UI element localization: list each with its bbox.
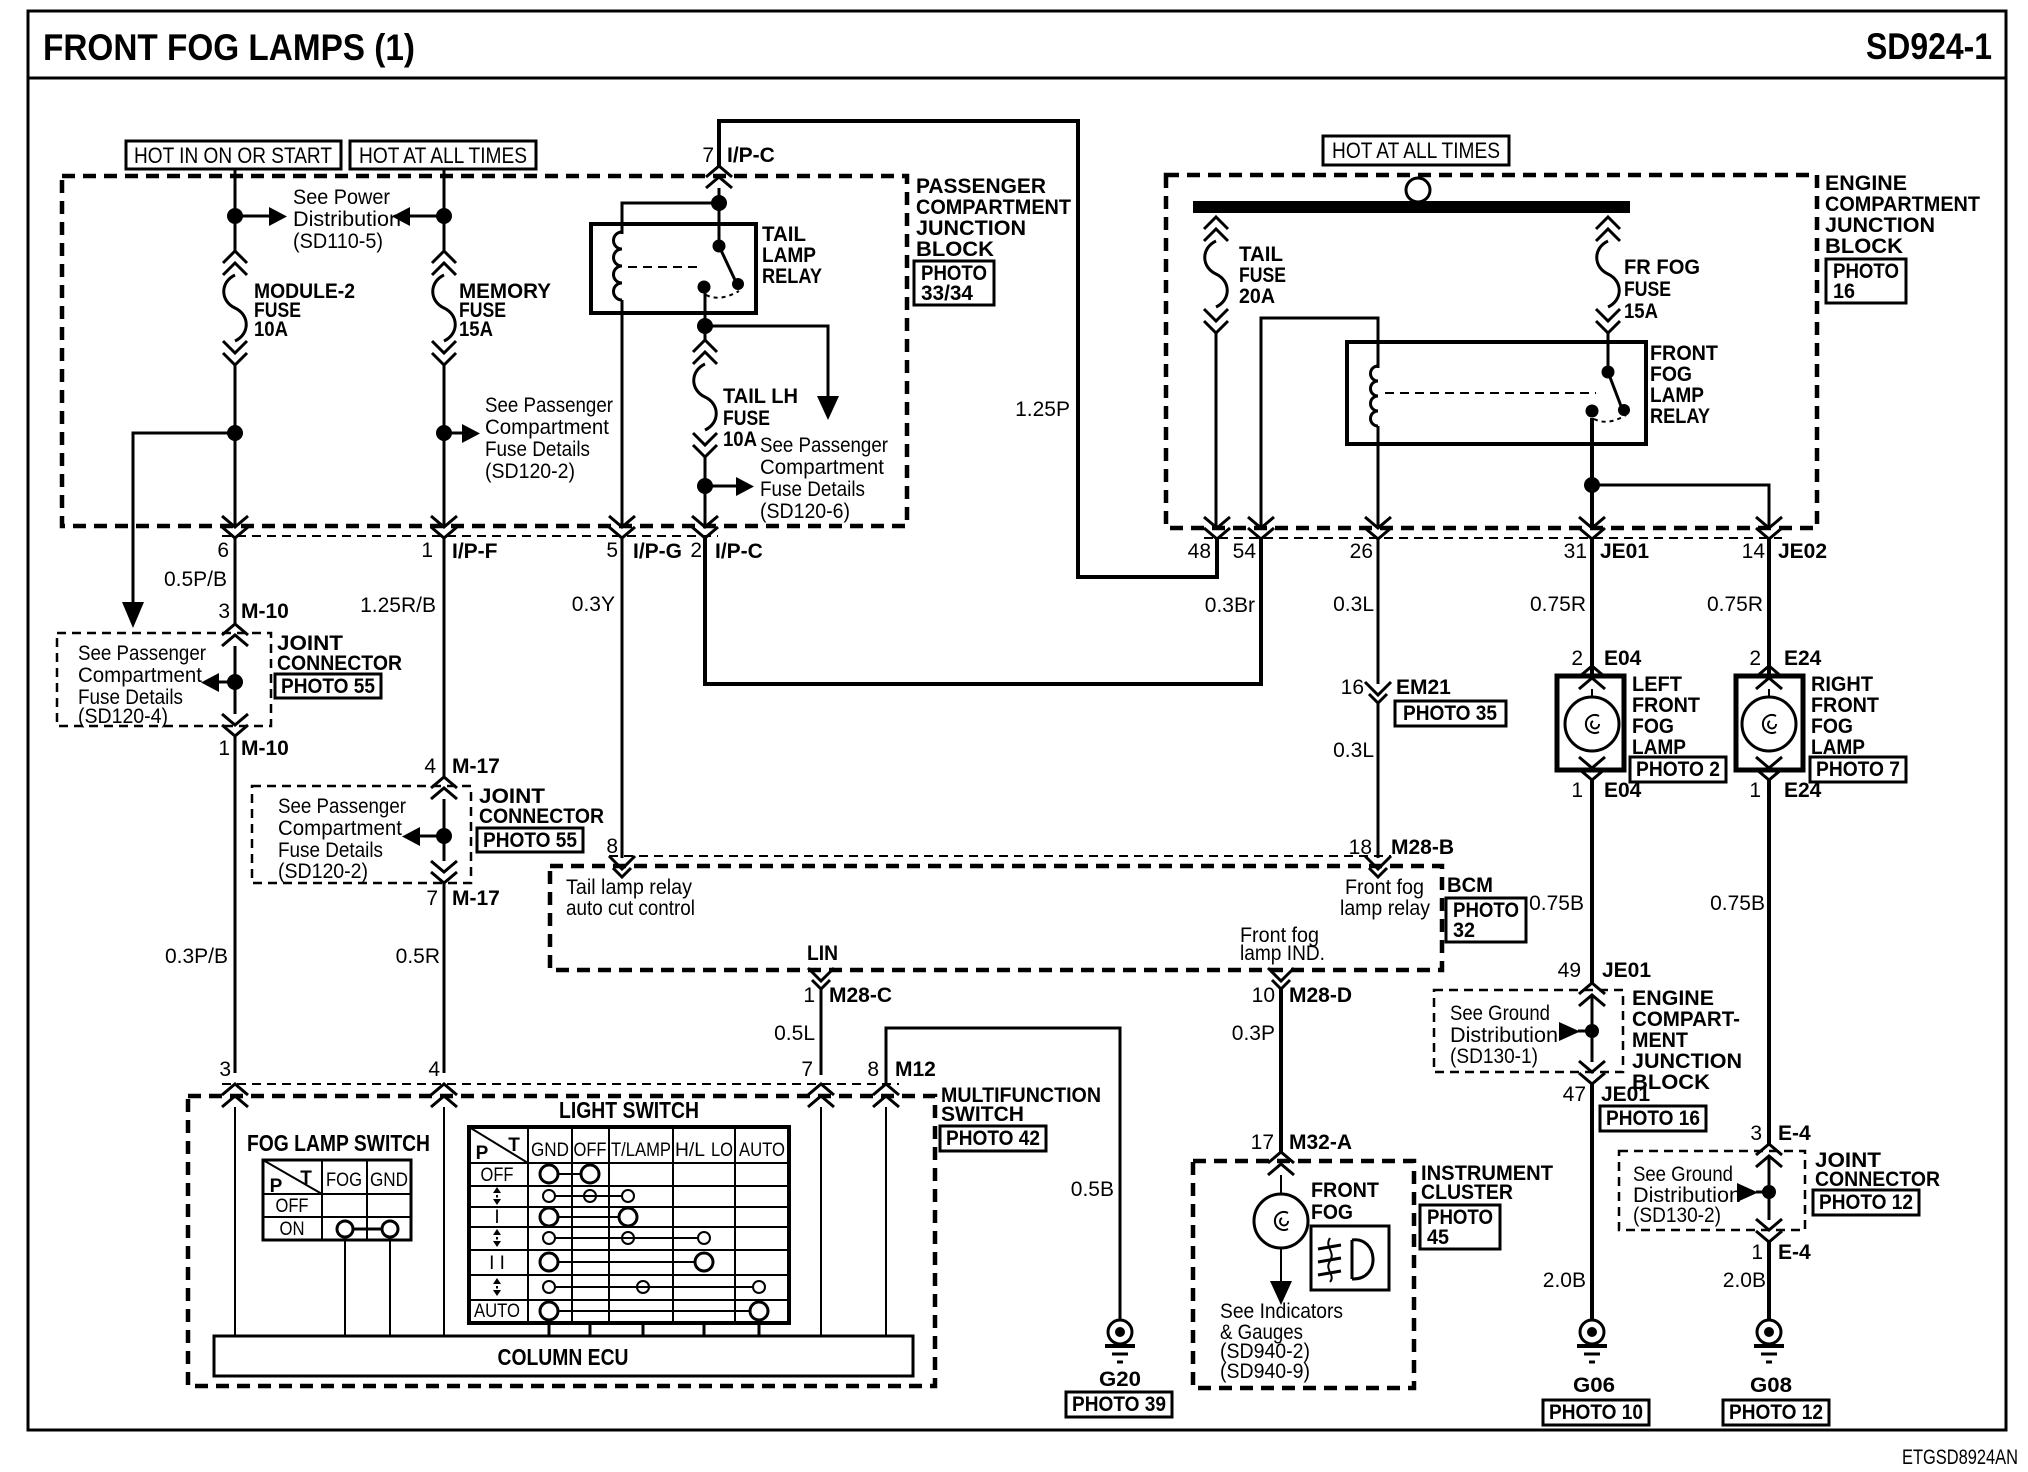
fog lamp switch table xyxy=(263,1160,411,1240)
svg-text:JE01: JE01 xyxy=(1600,540,1649,563)
svg-text:RELAY: RELAY xyxy=(1650,405,1710,428)
front fog lamp relay box xyxy=(1347,342,1646,444)
junction dot with arrow into SD120-4 box xyxy=(201,673,243,692)
svg-text:PHOTO 55: PHOTO 55 xyxy=(483,829,577,852)
connector 1 E04 xyxy=(1571,757,1641,802)
wire M-17 down to light switch xyxy=(443,883,446,1073)
note Tail lamp relay auto cut control xyxy=(566,876,695,920)
svg-text:Front fog: Front fog xyxy=(1345,876,1424,899)
svg-text:SWITCH: SWITCH xyxy=(941,1103,1024,1126)
wire label 0.75R (left) xyxy=(1530,593,1586,616)
arrow to see power distribution xyxy=(235,207,287,226)
wire label 0.5L xyxy=(774,1022,815,1045)
multifunction pin 3 connector xyxy=(219,1058,248,1107)
svg-text:(SD130-1): (SD130-1) xyxy=(1450,1045,1538,1068)
svg-text:lamp IND.: lamp IND. xyxy=(1240,942,1325,965)
light switch row updown3 contacts xyxy=(543,1281,765,1293)
svg-text:JE01: JE01 xyxy=(1602,959,1651,982)
svg-text:FRONT: FRONT xyxy=(1650,342,1718,365)
photo 10 box xyxy=(1543,1400,1649,1425)
column ECU box xyxy=(214,1336,913,1376)
see ground distribution SD130-1 dashed box xyxy=(1434,990,1623,1072)
photo 55 box (M-10) xyxy=(275,674,381,698)
svg-text:PHOTO 42: PHOTO 42 xyxy=(946,1127,1040,1150)
photo 39 box xyxy=(1066,1392,1172,1417)
junction dot below front fog relay xyxy=(1584,477,1600,493)
svg-text:FOG: FOG xyxy=(1811,715,1853,738)
svg-text:0.5L: 0.5L xyxy=(774,1022,815,1045)
front fog lamp relay coil xyxy=(1371,366,1379,426)
svg-text:M-17: M-17 xyxy=(452,755,500,778)
BCM pin 1 M28-C connector xyxy=(803,968,892,1007)
joint connector M-17 pin 7 xyxy=(426,861,500,910)
svg-text:TAIL: TAIL xyxy=(1239,243,1283,266)
junction dot feeding relay coil xyxy=(622,195,727,234)
multifunction switch dashed box xyxy=(188,1084,935,1386)
arrow from memory feed to see power distribution xyxy=(392,207,444,226)
svg-text:M28-D: M28-D xyxy=(1289,984,1352,1007)
svg-text:0.3L: 0.3L xyxy=(1333,739,1374,762)
svg-text:BCM: BCM xyxy=(1447,874,1493,897)
svg-text:8: 8 xyxy=(606,835,618,858)
svg-text:COMPART-: COMPART- xyxy=(1632,1008,1740,1031)
svg-text:T/LAMP: T/LAMP xyxy=(611,1140,671,1161)
photo 12 box (joint connector) xyxy=(1813,1190,1919,1215)
fuse TAIL LH FUSE 10A xyxy=(693,340,798,457)
svg-text:31: 31 xyxy=(1564,540,1587,563)
svg-text:(SD130-2): (SD130-2) xyxy=(1633,1204,1721,1227)
svg-text:3: 3 xyxy=(219,1058,231,1081)
svg-text:FRONT: FRONT xyxy=(1311,1179,1379,1202)
wire M-10 down to fog lamp switch xyxy=(234,736,237,1073)
joint connector M-10 pin 3 xyxy=(218,600,289,646)
front fog lamp relay label xyxy=(1650,342,1718,428)
svg-text:PHOTO 2: PHOTO 2 xyxy=(1636,758,1720,781)
wire below memory fuse xyxy=(443,365,446,527)
wire JE01 47 to ground G06 xyxy=(1590,1084,1594,1320)
svg-text:2: 2 xyxy=(690,539,702,562)
svg-text:(SD120-6): (SD120-6) xyxy=(760,500,850,523)
wire relay coil to pin 26 xyxy=(1377,426,1380,527)
wire E04 to JE01 49 xyxy=(1590,780,1594,984)
svg-text:4: 4 xyxy=(424,755,436,778)
svg-text:2: 2 xyxy=(1749,647,1761,670)
connector pin 31 JE01 xyxy=(1564,517,1650,563)
wire through M-17 xyxy=(443,799,446,861)
svg-text:FOG: FOG xyxy=(1650,363,1692,386)
svg-text:HOT IN ON OR START: HOT IN ON OR START xyxy=(134,143,332,168)
svg-text:ETGSD8924AN: ETGSD8924AN xyxy=(1902,1446,2018,1469)
svg-text:See Ground: See Ground xyxy=(1450,1002,1550,1025)
svg-text:GND: GND xyxy=(370,1170,408,1191)
photo 33/34 box xyxy=(914,261,994,305)
svg-text:1: 1 xyxy=(1751,1241,1763,1264)
svg-text:See Passenger: See Passenger xyxy=(278,795,406,818)
svg-text:Fuse Details: Fuse Details xyxy=(278,839,383,862)
arrow to see indicators xyxy=(1270,1248,1292,1305)
svg-text:0.75B: 0.75B xyxy=(1529,892,1584,915)
wire label 0.3P/B xyxy=(165,945,228,968)
svg-text:See Indicators: See Indicators xyxy=(1220,1300,1343,1323)
wire EM21 to BCM pin 18 xyxy=(1377,703,1380,858)
svg-text:See Passenger: See Passenger xyxy=(485,394,613,417)
svg-text:T: T xyxy=(300,1168,312,1189)
wire M28-C to multifunction pin 7 xyxy=(820,989,823,1075)
photo 55 box (M-17) xyxy=(477,828,583,852)
joint connector M-17 pin 4 xyxy=(424,755,500,799)
svg-text:10A: 10A xyxy=(723,428,757,451)
joint connector label (E-4) xyxy=(1815,1149,1940,1191)
dashed note box See Passenger Compartment Fuse Details (SD120-2) xyxy=(252,786,471,883)
right front fog lamp label xyxy=(1811,673,1879,759)
svg-text:M28-B: M28-B xyxy=(1391,836,1454,859)
svg-text:Compartment: Compartment xyxy=(78,664,202,687)
wire through E-4 box xyxy=(1768,1156,1771,1220)
label HOT AT ALL TIMES xyxy=(350,141,536,169)
svg-text:54: 54 xyxy=(1233,540,1257,563)
svg-text:FUSE: FUSE xyxy=(1239,264,1286,287)
svg-text:16: 16 xyxy=(1833,280,1855,303)
svg-text:CONNECTOR: CONNECTOR xyxy=(1815,1168,1940,1191)
note See Indicators & Gauges xyxy=(1220,1300,1343,1383)
svg-text:FUSE: FUSE xyxy=(1624,278,1671,301)
svg-text:I/P-C: I/P-C xyxy=(727,144,775,167)
junction dot with arrow SD130-1 xyxy=(1559,1022,1599,1041)
svg-text:48: 48 xyxy=(1188,540,1211,563)
svg-text:1: 1 xyxy=(803,984,815,1007)
wire label 1.25P xyxy=(1015,398,1070,421)
fog lamp switch wires to ECU xyxy=(345,1240,390,1336)
junction dot with arrow SD130-2 xyxy=(1737,1183,1776,1202)
engine compartment junction block dashed box xyxy=(1166,175,1817,538)
photo 42 box xyxy=(940,1126,1046,1151)
svg-text:(SD120-2): (SD120-2) xyxy=(485,460,575,483)
light switch updown arrows xyxy=(493,1187,501,1296)
tail lamp relay label xyxy=(762,223,822,288)
connector pin 26 xyxy=(1350,517,1391,563)
junction dot xyxy=(436,208,452,224)
svg-text:CONNECTOR: CONNECTOR xyxy=(479,805,604,828)
photo 45 box xyxy=(1420,1205,1500,1249)
wire fr fog fuse to relay xyxy=(1607,333,1610,374)
svg-text:CLUSTER: CLUSTER xyxy=(1421,1181,1513,1204)
light switch row updown2 contacts xyxy=(543,1232,710,1244)
svg-text:COLUMN ECU: COLUMN ECU xyxy=(498,1344,629,1370)
svg-text:E-4: E-4 xyxy=(1778,1122,1811,1145)
svg-text:LIN: LIN xyxy=(807,942,838,965)
wire M12 pin 8 external to ground riser xyxy=(886,1028,1120,1320)
svg-text:0.75B: 0.75B xyxy=(1710,892,1765,915)
svg-text:Fuse Details: Fuse Details xyxy=(485,438,590,461)
svg-text:(SD120-2): (SD120-2) xyxy=(278,860,368,883)
svg-text:M32-A: M32-A xyxy=(1289,1131,1352,1154)
connector 17 M32-A xyxy=(1251,1131,1352,1175)
wire relay output down xyxy=(1590,418,1594,527)
multifunction pin 8 M12 connector xyxy=(867,1058,936,1107)
connector pin 7 I/P-C at top xyxy=(702,144,775,188)
fuse TAIL FUSE 20A xyxy=(1204,217,1286,333)
wire through M-10 xyxy=(234,646,237,714)
svg-text:FOG: FOG xyxy=(1311,1201,1353,1224)
svg-text:0.5P/B: 0.5P/B xyxy=(164,568,227,591)
svg-text:BLOCK: BLOCK xyxy=(916,238,994,261)
svg-text:M-10: M-10 xyxy=(241,600,289,623)
wire 1.25P run from I/P-C 7 to engine block pin 48 xyxy=(719,121,1217,577)
wire I/P-C 2 to engine block pin 54 xyxy=(705,538,1261,684)
wire label 0.3Br xyxy=(1205,594,1255,617)
svg-text:0.5R: 0.5R xyxy=(396,945,440,968)
passenger compartment junction block dashed box xyxy=(62,176,907,536)
fuse MEMORY FUSE 15A xyxy=(432,251,551,365)
svg-text:MENT: MENT xyxy=(1632,1029,1688,1052)
svg-text:FUSE: FUSE xyxy=(723,407,770,430)
photo 35 box xyxy=(1395,701,1506,726)
wire below module-2 fuse xyxy=(234,365,237,527)
svg-text:OFF: OFF xyxy=(276,1196,309,1217)
svg-text:14: 14 xyxy=(1742,540,1766,563)
light switch row AUTO contacts xyxy=(540,1302,768,1320)
svg-text:FRONT FOG LAMPS (1): FRONT FOG LAMPS (1) xyxy=(43,27,415,68)
front fog indicator lamp xyxy=(1254,1175,1308,1248)
svg-text:G20: G20 xyxy=(1099,1368,1141,1391)
svg-text:JE01: JE01 xyxy=(1601,1083,1650,1106)
wire M28-D to M32-A xyxy=(1279,989,1283,1152)
svg-text:32: 32 xyxy=(1453,919,1475,942)
ground G06 xyxy=(1573,1320,1615,1397)
BCM pin 18 M28-B connector xyxy=(1349,836,1454,877)
svg-text:See Passenger: See Passenger xyxy=(760,434,888,457)
junction dot with arrow to SD120-6 note xyxy=(697,477,754,496)
connector pin 1 I/P-F xyxy=(421,516,497,563)
svg-text:OFF: OFF xyxy=(574,1140,607,1161)
wire I/P-F down to M-17 xyxy=(443,538,446,779)
svg-text:3: 3 xyxy=(218,600,230,623)
svg-text:47: 47 xyxy=(1563,1083,1586,1106)
svg-text:Distribution: Distribution xyxy=(293,208,401,231)
left front fog lamp bulb xyxy=(1565,689,1619,751)
svg-text:33/34: 33/34 xyxy=(921,282,973,305)
light switch label xyxy=(559,1097,699,1123)
svg-text:FRONT: FRONT xyxy=(1811,694,1879,717)
connector pin 6 at junction block xyxy=(217,516,248,562)
wire through SD130-1 xyxy=(1591,995,1594,1062)
svg-text:HOT AT ALL TIMES: HOT AT ALL TIMES xyxy=(359,143,527,168)
BCM label xyxy=(1447,874,1493,897)
svg-text:P: P xyxy=(476,1143,489,1164)
wire pin 14 to right fog lamp xyxy=(1767,539,1771,676)
svg-text:See Passenger: See Passenger xyxy=(78,642,206,665)
svg-text:26: 26 xyxy=(1350,540,1373,563)
svg-text:PHOTO 39: PHOTO 39 xyxy=(1072,1393,1166,1416)
svg-text:P: P xyxy=(270,1176,283,1197)
note See Passenger Compartment Fuse Details (SD120-6) xyxy=(760,434,888,523)
svg-text:0.75R: 0.75R xyxy=(1707,593,1763,616)
connector 2 E04 xyxy=(1571,647,1641,689)
connector pin 54 xyxy=(1233,517,1274,563)
svg-text:(SD110-5): (SD110-5) xyxy=(293,230,383,253)
arrow to SD120-2 note xyxy=(444,424,480,443)
wire relay output down xyxy=(704,293,707,340)
svg-text:LIGHT SWITCH: LIGHT SWITCH xyxy=(559,1097,699,1123)
fuse FR FOG FUSE 15A xyxy=(1596,217,1700,333)
left front fog lamp label xyxy=(1632,673,1700,759)
svg-text:JUNCTION: JUNCTION xyxy=(1825,214,1935,237)
svg-text:(SD940-9): (SD940-9) xyxy=(1220,1360,1310,1383)
wire label 0.5P/B xyxy=(164,568,227,591)
svg-text:TAIL: TAIL xyxy=(762,223,806,246)
light switch wires to ECU xyxy=(549,1323,759,1336)
svg-text:COMPARTMENT: COMPARTMENT xyxy=(1825,193,1980,216)
svg-text:2: 2 xyxy=(1571,647,1583,670)
svg-text:Compartment: Compartment xyxy=(485,416,609,439)
svg-text:PHOTO 12: PHOTO 12 xyxy=(1819,1191,1913,1214)
svg-text:2.0B: 2.0B xyxy=(1543,1269,1586,1292)
svg-text:PHOTO 10: PHOTO 10 xyxy=(1549,1401,1643,1424)
wire tail fuse to pin 48 xyxy=(1215,333,1218,527)
svg-text:0.3Br: 0.3Br xyxy=(1205,594,1255,617)
connector 3 E-4 xyxy=(1750,1122,1811,1167)
wire pin 54 to front fog relay coil xyxy=(1261,318,1378,527)
wire label 2.0B (left) xyxy=(1543,1269,1586,1292)
connector 47 JE01 xyxy=(1563,1061,1651,1106)
wire branch to SD120-4 note xyxy=(122,433,235,628)
instrument cluster label xyxy=(1421,1162,1553,1204)
svg-text:RELAY: RELAY xyxy=(762,265,822,288)
fog lamp switch label xyxy=(247,1130,430,1156)
svg-text:LAMP: LAMP xyxy=(1650,384,1704,407)
svg-text:See Power: See Power xyxy=(293,186,390,209)
svg-text:PHOTO 35: PHOTO 35 xyxy=(1403,702,1497,725)
photo 16 box (JE01) xyxy=(1600,1106,1706,1131)
svg-text:M28-C: M28-C xyxy=(829,984,892,1007)
title FRONT FOG LAMPS (1) xyxy=(43,27,415,68)
light switch row updown1 contacts xyxy=(543,1190,634,1202)
wire label 0.3L (EM21) xyxy=(1333,739,1374,762)
svg-text:I/P-F: I/P-F xyxy=(452,540,498,563)
light switch row OFF contacts xyxy=(540,1165,599,1183)
svg-text:JUNCTION: JUNCTION xyxy=(916,217,1026,240)
wire from pin 6 to M-10 xyxy=(234,538,237,625)
wire label 0.75B (left) xyxy=(1529,892,1584,915)
svg-text:PHOTO 7: PHOTO 7 xyxy=(1816,758,1900,781)
svg-text:Fuse Details: Fuse Details xyxy=(760,478,865,501)
svg-text:BLOCK: BLOCK xyxy=(1825,235,1903,258)
svg-text:LAMP: LAMP xyxy=(762,244,816,267)
svg-text:20A: 20A xyxy=(1239,285,1275,308)
svg-text:0.3P/B: 0.3P/B xyxy=(165,945,228,968)
joint connector M-10 pin 1 xyxy=(218,714,289,760)
connector pin 14 JE02 xyxy=(1742,517,1827,563)
net label LIN xyxy=(807,942,838,965)
multifunction switch label xyxy=(941,1084,1101,1126)
svg-text:10: 10 xyxy=(1252,984,1275,1007)
tail lamp relay box xyxy=(591,224,756,313)
multifunction pin 4 connector xyxy=(428,1058,457,1107)
tail lamp relay coil xyxy=(614,232,623,300)
svg-text:Distribution: Distribution xyxy=(1450,1024,1558,1047)
photo 2 box xyxy=(1630,757,1726,782)
svg-text:JUNCTION: JUNCTION xyxy=(1632,1050,1742,1073)
ground G20 xyxy=(1099,1320,1141,1391)
junction dot xyxy=(227,425,243,441)
svg-text:FOG: FOG xyxy=(1632,715,1674,738)
svg-text:7: 7 xyxy=(702,144,714,167)
svg-text:FRONT: FRONT xyxy=(1632,694,1700,717)
joint connector label (M-17) xyxy=(479,785,604,828)
svg-text:1: 1 xyxy=(1749,779,1761,802)
bus bar xyxy=(1193,201,1630,213)
joint connector label (M-10) xyxy=(277,632,402,675)
connector 1 E-4 xyxy=(1751,1219,1811,1264)
connector 1 E24 xyxy=(1749,757,1821,802)
connector pin 48 xyxy=(1188,517,1230,563)
right front fog lamp box xyxy=(1736,676,1803,770)
wire label 0.75B (right) xyxy=(1710,892,1765,915)
bus bar terminal circle xyxy=(1406,178,1430,202)
svg-text:E24: E24 xyxy=(1784,779,1822,802)
svg-text:CONNECTOR: CONNECTOR xyxy=(277,652,402,675)
junction dot below relay xyxy=(697,318,713,334)
svg-text:Compartment: Compartment xyxy=(760,456,884,479)
svg-text:FOG LAMP SWITCH: FOG LAMP SWITCH xyxy=(247,1130,430,1156)
svg-text:49: 49 xyxy=(1558,959,1581,982)
wire label 0.3L xyxy=(1333,593,1374,616)
svg-text:E24: E24 xyxy=(1784,647,1822,670)
svg-text:auto cut control: auto cut control xyxy=(566,897,695,920)
note See Power Distribution (SD110-5) xyxy=(293,186,401,253)
label HOT AT ALL TIMES (engine) xyxy=(1323,136,1509,165)
svg-text:FOG: FOG xyxy=(326,1170,362,1191)
connector EM21 pin 16 xyxy=(1341,676,1452,703)
svg-text:7: 7 xyxy=(801,1058,813,1081)
label HOT IN ON OR START xyxy=(126,141,341,169)
svg-text:I/P-G: I/P-G xyxy=(633,540,682,563)
svg-text:I I: I I xyxy=(489,1253,505,1274)
svg-text:G06: G06 xyxy=(1573,1374,1615,1397)
svg-text:ENGINE: ENGINE xyxy=(1632,987,1714,1010)
svg-text:8: 8 xyxy=(867,1058,879,1081)
svg-text:15A: 15A xyxy=(1624,300,1658,323)
photo 32 box xyxy=(1446,898,1526,942)
svg-text:G08: G08 xyxy=(1750,1374,1792,1397)
svg-text:COMPARTMENT: COMPARTMENT xyxy=(916,196,1071,219)
svg-text:5: 5 xyxy=(606,539,618,562)
svg-text:M-17: M-17 xyxy=(452,887,500,910)
svg-text:15A: 15A xyxy=(459,318,493,341)
svg-text:FR FOG: FR FOG xyxy=(1624,256,1700,279)
connector pin 5 I/P-G xyxy=(606,516,682,563)
tail lamp relay switch xyxy=(698,240,745,298)
wire label 2.0B (right) xyxy=(1723,1269,1766,1292)
passenger compartment junction block label xyxy=(916,175,1071,261)
svg-text:7: 7 xyxy=(426,887,438,910)
branch to SD120-6 note arrow xyxy=(705,326,839,420)
svg-text:LEFT: LEFT xyxy=(1632,673,1682,696)
svg-text:I/P-C: I/P-C xyxy=(715,540,763,563)
title code SD924-1 xyxy=(1866,26,1992,67)
svg-text:1: 1 xyxy=(421,539,433,562)
note Front fog lamp relay xyxy=(1340,876,1430,920)
BCM dashed box xyxy=(550,856,1442,970)
tail lamp relay mechanical link xyxy=(628,266,700,268)
connector 49 JE01 xyxy=(1558,959,1652,1006)
svg-text:LO: LO xyxy=(711,1140,733,1161)
svg-text:ENGINE: ENGINE xyxy=(1825,172,1907,195)
front fog lamp relay switch xyxy=(1586,366,1631,422)
light switch row II contacts xyxy=(540,1253,713,1271)
wire from I/P-C 7 down into tail lamp relay xyxy=(718,188,721,246)
wire E24 to E-4 xyxy=(1767,780,1771,1145)
